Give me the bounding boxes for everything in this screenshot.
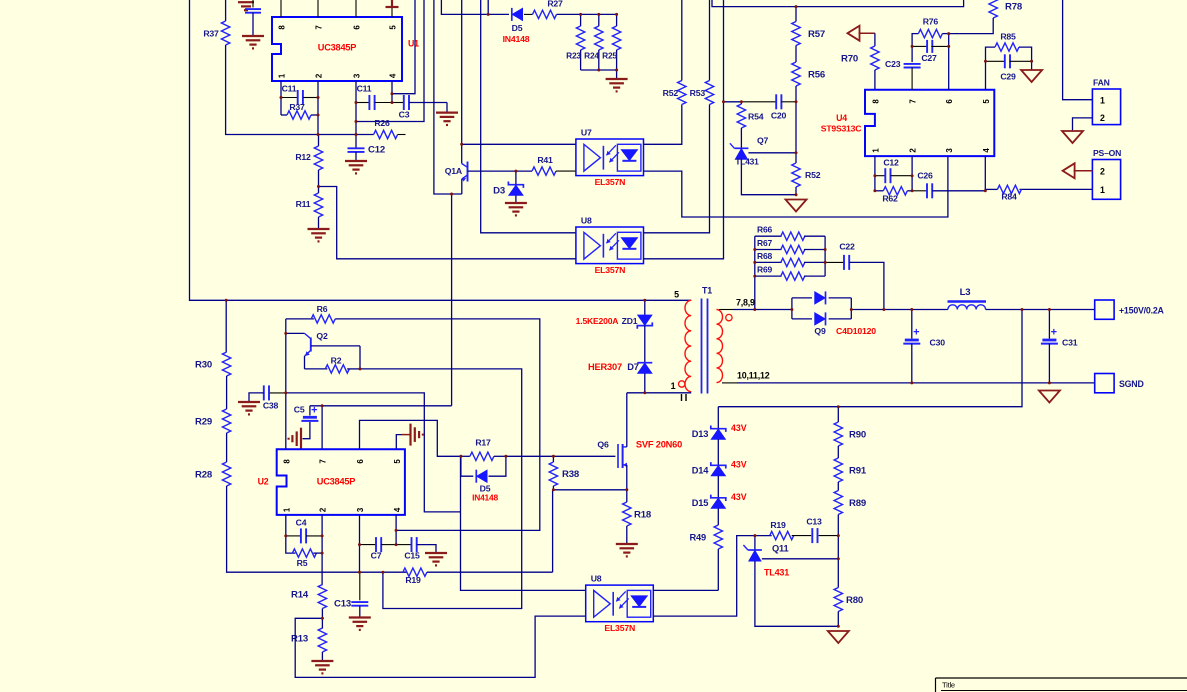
svg-text:C26: C26 [917, 171, 933, 181]
svg-text:R6: R6 [317, 304, 328, 314]
svg-text:R90: R90 [849, 430, 866, 441]
svg-text:2: 2 [1100, 167, 1105, 177]
svg-text:5: 5 [674, 290, 679, 300]
svg-text:IN4148: IN4148 [472, 493, 498, 503]
svg-text:C15: C15 [404, 551, 420, 561]
svg-text:R18: R18 [634, 510, 652, 521]
svg-text:10,11,12: 10,11,12 [737, 371, 770, 381]
svg-text:7,8,9: 7,8,9 [736, 298, 755, 308]
svg-text:T1: T1 [702, 286, 712, 296]
svg-text:FAN: FAN [1093, 78, 1110, 88]
svg-text:C7: C7 [371, 551, 382, 561]
svg-text:1: 1 [1100, 185, 1105, 195]
svg-text:UC3845P: UC3845P [318, 43, 357, 53]
svg-text:SVF 20N60: SVF 20N60 [636, 440, 682, 450]
svg-text:U8: U8 [591, 574, 602, 584]
svg-text:C23: C23 [885, 59, 901, 69]
svg-text:R24: R24 [584, 51, 599, 61]
svg-text:+: + [311, 404, 317, 416]
svg-text:C29: C29 [1000, 72, 1016, 82]
svg-text:R70: R70 [841, 54, 858, 65]
svg-text:D7: D7 [627, 362, 639, 372]
svg-text:R37: R37 [289, 102, 305, 112]
svg-text:R23: R23 [566, 51, 581, 61]
svg-text:R41: R41 [537, 155, 553, 165]
svg-text:R89: R89 [849, 498, 866, 509]
svg-text:R76: R76 [923, 17, 939, 27]
svg-text:EL357N: EL357N [595, 177, 626, 187]
svg-text:R69: R69 [757, 265, 772, 275]
svg-text:ZD1: ZD1 [622, 316, 638, 326]
svg-text:C12: C12 [883, 158, 899, 168]
svg-text:R13: R13 [291, 634, 308, 645]
svg-text:R91: R91 [849, 466, 867, 477]
svg-text:R66: R66 [757, 225, 772, 235]
svg-text:D5: D5 [512, 23, 523, 33]
svg-text:+: + [1051, 327, 1057, 339]
svg-text:2: 2 [1100, 113, 1105, 123]
svg-text:D3: D3 [493, 186, 505, 197]
svg-text:R19: R19 [405, 575, 421, 585]
svg-text:Q6: Q6 [597, 440, 609, 450]
svg-text:D15: D15 [692, 498, 708, 508]
svg-text:R53: R53 [690, 88, 706, 98]
svg-text:R62: R62 [882, 194, 898, 204]
svg-text:R5: R5 [297, 558, 308, 568]
svg-text:D14: D14 [692, 466, 709, 476]
svg-text:SGND: SGND [1119, 379, 1144, 389]
svg-text:43V: 43V [731, 423, 747, 433]
svg-text:R11: R11 [296, 199, 311, 209]
svg-text:C31: C31 [1062, 338, 1078, 348]
svg-text:R29: R29 [195, 417, 212, 428]
svg-text:R2: R2 [331, 355, 342, 365]
svg-text:R84: R84 [1001, 192, 1017, 202]
svg-text:Q2: Q2 [316, 331, 328, 341]
svg-text:U7: U7 [581, 128, 592, 138]
svg-text:EL357N: EL357N [595, 265, 626, 275]
svg-text:C5: C5 [294, 405, 305, 415]
svg-text:R12: R12 [295, 152, 311, 162]
svg-text:C20: C20 [771, 111, 787, 121]
svg-text:R57: R57 [808, 29, 825, 40]
svg-text:R68: R68 [757, 251, 772, 261]
svg-text:1.5KE200A: 1.5KE200A [576, 316, 619, 326]
svg-text:R28: R28 [195, 470, 213, 481]
svg-text:R49: R49 [690, 533, 706, 543]
svg-text:43V: 43V [731, 460, 747, 470]
svg-text:U4: U4 [836, 113, 847, 123]
svg-text:IN4148: IN4148 [503, 34, 530, 44]
svg-text:C30: C30 [930, 338, 946, 348]
svg-text:Q11: Q11 [772, 544, 788, 554]
svg-text:U2: U2 [258, 477, 269, 487]
svg-text:R30: R30 [195, 360, 212, 371]
svg-text:HER307: HER307 [588, 362, 622, 372]
svg-text:U1: U1 [408, 39, 419, 49]
svg-text:C4D10120: C4D10120 [836, 326, 876, 336]
svg-text:PS–ON: PS–ON [1093, 148, 1121, 158]
svg-text:R38: R38 [562, 469, 580, 480]
svg-text:C3: C3 [399, 110, 410, 120]
svg-text:C22: C22 [839, 242, 855, 252]
svg-text:1: 1 [1100, 95, 1105, 105]
svg-text:R80: R80 [846, 595, 863, 606]
svg-text:C38: C38 [263, 401, 279, 411]
svg-text:+: + [913, 327, 919, 339]
svg-text:EL357N: EL357N [604, 623, 635, 633]
svg-text:R56: R56 [808, 70, 825, 81]
svg-text:U8: U8 [581, 216, 592, 226]
svg-text:R85: R85 [1000, 32, 1016, 42]
svg-text:R17: R17 [475, 438, 491, 448]
svg-text:C13: C13 [806, 517, 822, 527]
svg-text:R67: R67 [757, 238, 772, 248]
svg-text:R52: R52 [805, 170, 821, 180]
svg-text:R19: R19 [770, 520, 786, 530]
svg-text:R25: R25 [602, 51, 617, 61]
svg-text:C11: C11 [282, 84, 297, 94]
svg-text:C27: C27 [921, 53, 937, 63]
svg-text:Q7: Q7 [757, 136, 769, 146]
svg-text:D13: D13 [692, 429, 708, 439]
svg-text:43V: 43V [731, 492, 747, 502]
svg-text:Q1A: Q1A [445, 166, 463, 176]
svg-text:R27: R27 [547, 0, 563, 8]
svg-text:R26: R26 [374, 118, 390, 128]
svg-text:TL431: TL431 [764, 568, 789, 578]
svg-text:Q9: Q9 [814, 326, 826, 336]
svg-text:C12: C12 [368, 145, 385, 156]
svg-text:1: 1 [671, 381, 676, 391]
svg-text:Title: Title [942, 681, 955, 690]
svg-text:C11: C11 [357, 84, 372, 94]
svg-text:R54: R54 [748, 112, 764, 122]
svg-text:R37: R37 [203, 29, 219, 39]
svg-text:C13: C13 [334, 599, 351, 610]
svg-text:R78: R78 [1005, 2, 1023, 13]
svg-text:L3: L3 [960, 287, 971, 298]
svg-text:C4: C4 [296, 518, 307, 528]
svg-text:R52: R52 [663, 88, 679, 98]
svg-text:R14: R14 [291, 590, 309, 601]
svg-text:ST9S313C: ST9S313C [821, 124, 861, 134]
svg-text:TL431: TL431 [735, 157, 759, 167]
svg-text:+150V/0.2A: +150V/0.2A [1119, 306, 1165, 316]
svg-text:UC3845P: UC3845P [317, 477, 356, 487]
